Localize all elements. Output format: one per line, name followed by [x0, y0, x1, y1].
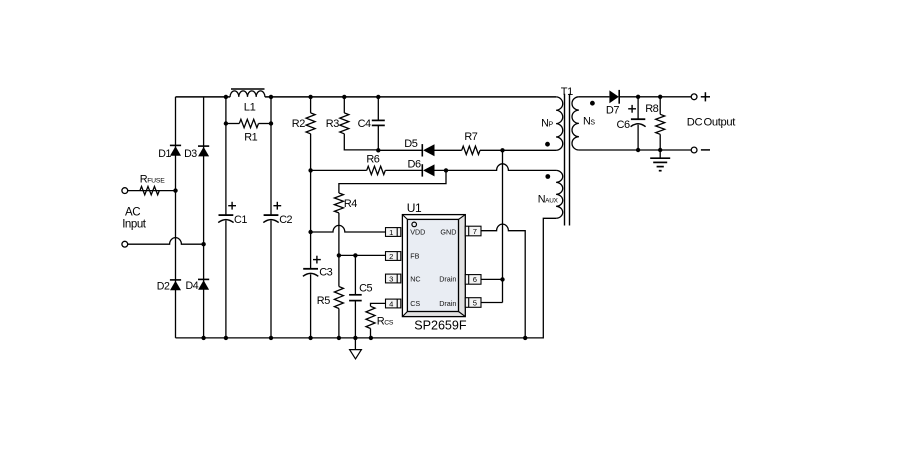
- svg-text:R5: R5: [317, 295, 330, 307]
- svg-text:1: 1: [389, 228, 393, 237]
- svg-text:4: 4: [389, 299, 393, 308]
- svg-text:2: 2: [389, 252, 393, 261]
- svg-text:7: 7: [473, 227, 477, 236]
- svg-text:FB: FB: [410, 251, 419, 260]
- svg-text:AC: AC: [125, 207, 140, 219]
- svg-text:D7: D7: [606, 104, 619, 116]
- svg-text:R3: R3: [326, 118, 339, 130]
- svg-text:Drain: Drain: [439, 299, 456, 308]
- svg-text:D3: D3: [184, 148, 197, 160]
- svg-text:C5: C5: [359, 283, 372, 295]
- svg-text:R8: R8: [645, 103, 658, 115]
- svg-text:CS: CS: [410, 299, 420, 308]
- svg-text:VDD: VDD: [410, 227, 425, 236]
- svg-text:D6: D6: [408, 159, 421, 171]
- svg-text:R7: R7: [464, 131, 477, 143]
- svg-text:SP2659F: SP2659F: [414, 319, 467, 333]
- svg-text:Input: Input: [122, 219, 147, 231]
- svg-text:DCOutput: DCOutput: [687, 117, 736, 129]
- svg-text:D4: D4: [186, 280, 199, 292]
- svg-text:C2: C2: [279, 214, 292, 226]
- svg-text:R4: R4: [344, 198, 357, 210]
- svg-text:R2: R2: [292, 118, 305, 130]
- svg-text:D2: D2: [157, 281, 170, 293]
- svg-text:D5: D5: [404, 138, 417, 150]
- svg-text:5: 5: [473, 298, 477, 307]
- svg-text:6: 6: [473, 275, 477, 284]
- svg-text:D1: D1: [158, 148, 171, 160]
- svg-text:C4: C4: [358, 118, 371, 130]
- svg-text:T1: T1: [561, 86, 573, 98]
- svg-text:C3: C3: [319, 267, 332, 279]
- svg-text:L1: L1: [244, 101, 256, 113]
- svg-text:3: 3: [389, 274, 393, 283]
- svg-text:Drain: Drain: [439, 274, 456, 283]
- svg-text:R6: R6: [366, 153, 379, 165]
- svg-text:U1: U1: [407, 201, 422, 215]
- svg-text:GND: GND: [440, 227, 456, 236]
- svg-text:R1: R1: [244, 132, 257, 144]
- svg-text:C6: C6: [617, 119, 630, 131]
- svg-text:C1: C1: [234, 214, 247, 226]
- svg-text:NC: NC: [410, 274, 420, 283]
